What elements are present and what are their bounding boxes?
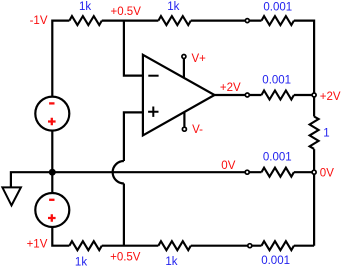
resistor R4 1 (right vertical) [310,117,319,149]
resistor R2 1k (top middle) [158,16,190,25]
resistor R8 0.001 (0V row) [262,168,294,177]
node on top wire [245,19,249,23]
voltage source V1 [35,97,69,131]
svg-text:1k: 1k [75,256,87,268]
node V+ terminal [182,55,186,59]
node on output wire [245,93,249,97]
svg-text:+1V: +1V [27,239,48,251]
wire op-amp output [215,94,262,96]
wire output row right [294,94,314,96]
svg-text:1k: 1k [79,1,91,13]
wire top-left corner [52,21,69,97]
wire bottom segment b [102,245,159,247]
svg-text:0.001: 0.001 [263,151,292,163]
wire bottom segment c [191,245,262,247]
svg-text:1: 1 [323,127,329,139]
wire right column lower [313,149,315,246]
wire left column middle [51,131,53,193]
wire 0V row right [294,171,314,173]
wire non-inverting input upper [124,112,143,161]
node ground junction dot [49,169,56,176]
svg-text:-1V: -1V [30,15,48,27]
svg-text:+2V: +2V [320,91,341,103]
wire V+ stem [183,59,185,78]
V2 minus sign [49,199,54,201]
wire to ground [11,172,52,187]
svg-text:+0.5V: +0.5V [110,251,141,263]
svg-text:0V: 0V [320,168,334,180]
svg-text:0.001: 0.001 [262,74,291,86]
resistor R6 1k (bottom middle) [158,241,190,250]
node V- terminal [182,127,186,131]
wire 0V row left [52,171,261,173]
resistor R3 0.001 (top right) [262,16,294,25]
node on bottom wire [248,244,252,248]
wire inverting input [124,21,143,76]
svg-text:V-: V- [192,124,203,136]
op-amp inverting input minus symbol [148,75,158,77]
ground [2,187,21,205]
V1 plus sign [48,118,56,126]
node 0V junction [312,170,316,174]
svg-text:0.001: 0.001 [261,255,290,267]
svg-text:+0.5V: +0.5V [111,6,142,18]
svg-text:0V: 0V [221,160,235,172]
V2 plus sign [48,214,56,222]
wire V- stem [183,112,185,127]
op-amp non-inverting input plus symbol [148,107,158,117]
resistor R1 1k (top left) [69,16,101,25]
wire top middle [102,20,159,22]
V1 minus sign [49,102,54,104]
node on 0V wire [245,170,249,174]
node +2V junction [312,93,316,97]
wire bottom-left corner up [52,227,69,246]
resistor R7 1k (bottom left) [69,241,101,250]
svg-text:1k: 1k [167,1,179,13]
op-amp U1 triangle [143,55,215,136]
svg-text:0.001: 0.001 [263,1,292,13]
wire top right segment [191,20,262,22]
wire non-inverting input lower [123,184,125,246]
resistor R5 0.001 (bottom right) [262,241,294,250]
wire bottom right corner [294,245,314,247]
wire top-right corner down [294,21,314,117]
voltage source V2 [35,193,69,227]
svg-text:V+: V+ [192,53,207,65]
svg-text:1k: 1k [165,256,177,268]
svg-text:+2V: +2V [220,82,241,94]
resistor R9 0.001 (output row) [262,91,294,100]
wire crossover hop [113,161,124,184]
